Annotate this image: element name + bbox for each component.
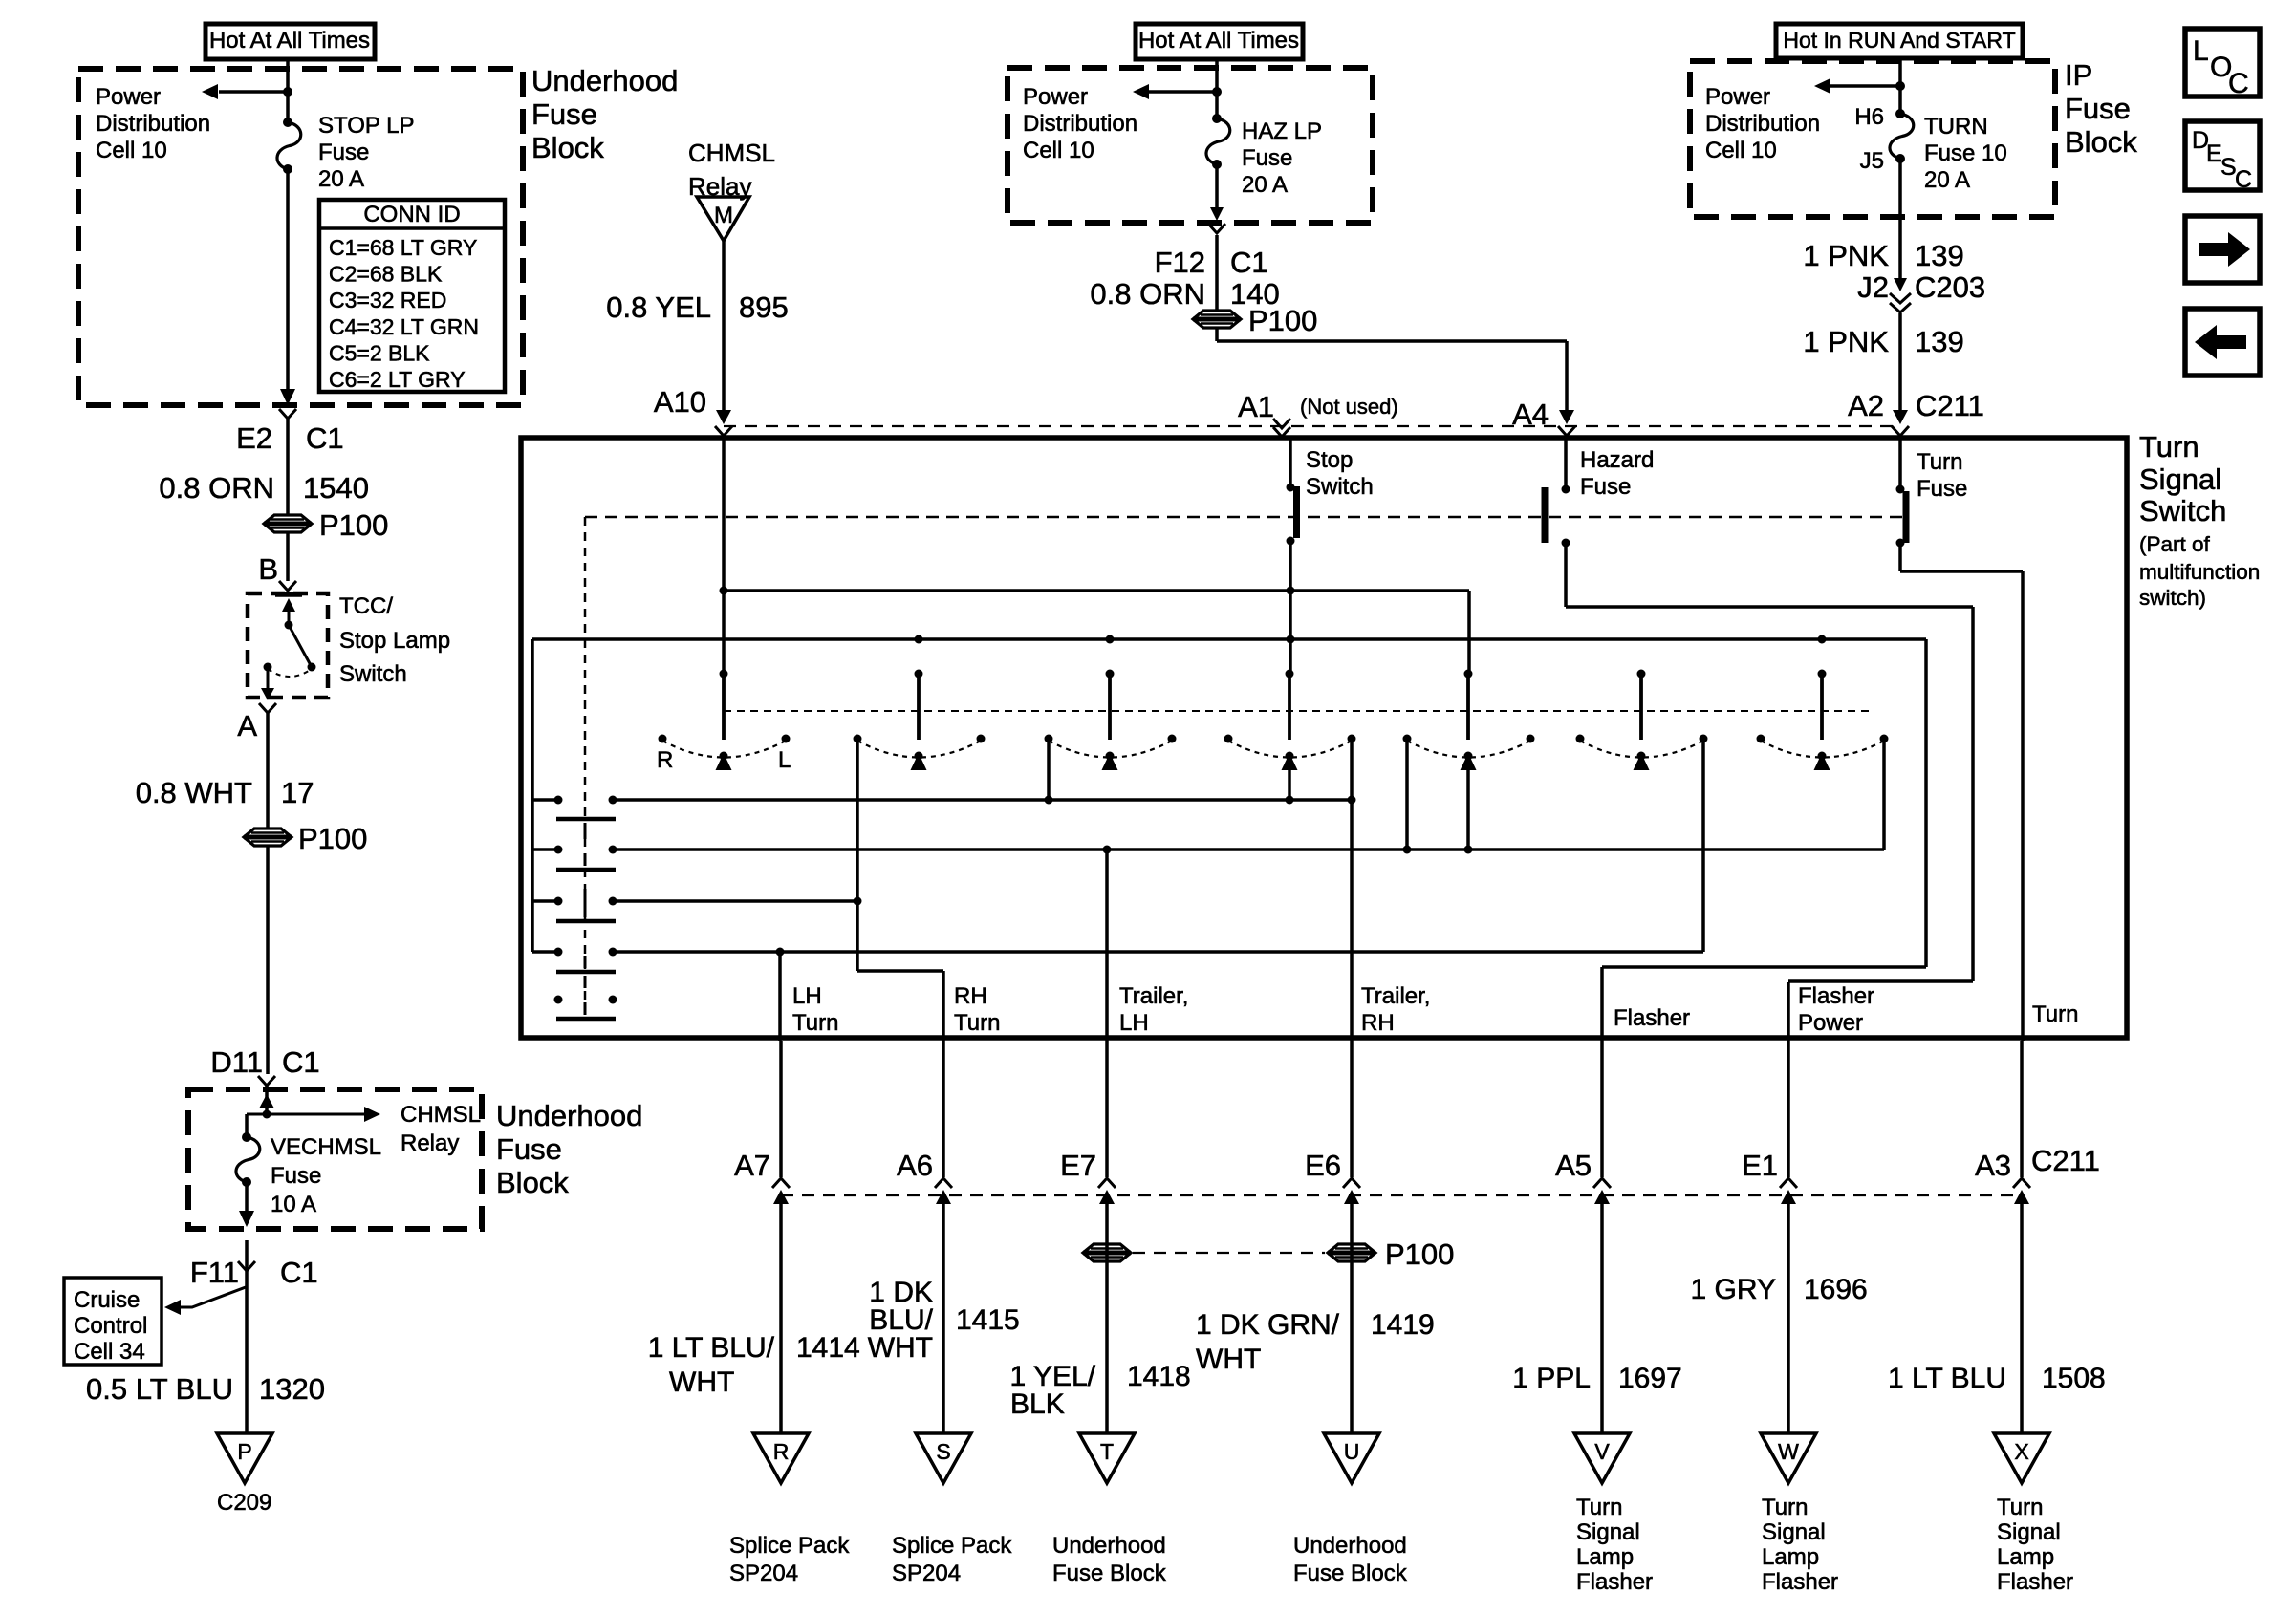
svg-text:Cell 10: Cell 10 <box>1705 138 1777 163</box>
svg-text:STOP LP: STOP LP <box>318 113 415 139</box>
svg-text:0.5 LT BLU: 0.5 LT BLU <box>86 1372 233 1406</box>
svg-text:Control: Control <box>74 1313 147 1339</box>
svg-text:1418: 1418 <box>1127 1361 1191 1392</box>
svg-text:TCC/: TCC/ <box>339 593 393 619</box>
svg-text:switch): switch) <box>2139 586 2206 610</box>
svg-text:(Part of: (Part of <box>2139 532 2211 556</box>
svg-text:Fuse: Fuse <box>1580 474 1631 500</box>
svg-text:1 PNK: 1 PNK <box>1803 325 1889 358</box>
svg-text:Relay: Relay <box>401 1130 459 1156</box>
svg-text:Underhood: Underhood <box>531 64 678 97</box>
svg-text:1540: 1540 <box>303 471 369 505</box>
svg-text:Underhood: Underhood <box>1052 1533 1166 1559</box>
svg-text:Turn: Turn <box>2139 430 2199 463</box>
svg-text:Fuse: Fuse <box>2065 92 2131 125</box>
svg-text:Fuse: Fuse <box>318 140 369 165</box>
svg-text:20 A: 20 A <box>1924 167 1970 193</box>
svg-text:LH: LH <box>792 983 822 1009</box>
svg-text:C1: C1 <box>280 1256 318 1289</box>
svg-text:Signal: Signal <box>1997 1519 2061 1545</box>
svg-text:1 DK GRN/: 1 DK GRN/ <box>1196 1309 1340 1341</box>
svg-text:C211: C211 <box>1916 389 1984 422</box>
svg-text:C3=32 RED: C3=32 RED <box>329 288 446 312</box>
svg-text:Cell 10: Cell 10 <box>96 138 167 163</box>
svg-text:P100: P100 <box>1385 1237 1454 1271</box>
svg-text:Cell 34: Cell 34 <box>74 1339 145 1365</box>
svg-text:1419: 1419 <box>1371 1309 1435 1341</box>
svg-text:Trailer,: Trailer, <box>1119 983 1188 1009</box>
svg-text:Hot In RUN And START: Hot In RUN And START <box>1783 28 2015 53</box>
svg-text:Signal: Signal <box>1762 1519 1826 1545</box>
svg-text:V: V <box>1594 1439 1610 1464</box>
svg-text:Splice Pack: Splice Pack <box>892 1533 1012 1559</box>
svg-text:Distribution: Distribution <box>1705 111 1820 137</box>
svg-text:Turn: Turn <box>1997 1495 2043 1520</box>
svg-text:F12: F12 <box>1155 246 1205 279</box>
svg-text:17: 17 <box>281 776 314 809</box>
svg-text:WHT: WHT <box>669 1367 734 1398</box>
svg-text:WHT: WHT <box>1196 1344 1261 1375</box>
svg-text:A2: A2 <box>1848 389 1884 422</box>
svg-text:Power: Power <box>1798 1010 1863 1036</box>
svg-text:0.8 ORN: 0.8 ORN <box>1090 277 1205 311</box>
svg-text:L: L <box>2193 35 2209 67</box>
svg-text:1 GRY: 1 GRY <box>1691 1274 1777 1305</box>
svg-text:139: 139 <box>1915 325 1964 358</box>
svg-text:multifunction: multifunction <box>2139 560 2260 584</box>
svg-text:Fuse Block: Fuse Block <box>1293 1560 1408 1586</box>
svg-text:J2: J2 <box>1857 270 1889 304</box>
svg-text:C: C <box>2235 166 2252 193</box>
svg-text:C203: C203 <box>1915 270 1985 304</box>
svg-text:1415: 1415 <box>956 1304 1020 1336</box>
svg-text:BLK: BLK <box>1010 1388 1065 1420</box>
svg-text:10 A: 10 A <box>271 1192 316 1217</box>
svg-text:Signal: Signal <box>1576 1519 1640 1545</box>
svg-text:HAZ LP: HAZ LP <box>1242 118 1322 144</box>
svg-text:A5: A5 <box>1555 1149 1592 1182</box>
svg-text:Power: Power <box>1023 84 1088 110</box>
svg-text:F11: F11 <box>190 1256 239 1289</box>
svg-text:1696: 1696 <box>1804 1274 1868 1305</box>
svg-text:(Not used): (Not used) <box>1300 395 1398 419</box>
svg-text:B: B <box>258 552 278 586</box>
svg-text:RH: RH <box>954 983 987 1009</box>
svg-text:Turn: Turn <box>1576 1495 1622 1520</box>
svg-text:P100: P100 <box>1248 304 1317 337</box>
svg-text:X: X <box>2014 1439 2028 1464</box>
svg-text:Flasher: Flasher <box>1576 1569 1653 1595</box>
svg-text:Fuse: Fuse <box>1917 476 1967 502</box>
svg-text:A7: A7 <box>734 1149 770 1182</box>
svg-text:P: P <box>237 1439 251 1464</box>
svg-text:A10: A10 <box>654 385 706 419</box>
svg-text:R: R <box>773 1439 790 1464</box>
svg-text:Hot At All Times: Hot At All Times <box>209 28 370 54</box>
svg-text:C1: C1 <box>1230 246 1268 279</box>
svg-text:Fuse: Fuse <box>496 1132 562 1166</box>
svg-text:Fuse 10: Fuse 10 <box>1924 140 2007 166</box>
svg-text:TURN: TURN <box>1924 114 1988 140</box>
svg-text:Switch: Switch <box>339 661 407 687</box>
svg-text:P100: P100 <box>298 822 367 855</box>
svg-text:C6=2 LT GRY: C6=2 LT GRY <box>329 367 466 392</box>
svg-text:E2: E2 <box>236 421 272 455</box>
svg-text:RH: RH <box>1361 1010 1395 1036</box>
svg-text:Distribution: Distribution <box>96 111 210 137</box>
svg-text:SP204: SP204 <box>892 1560 961 1586</box>
svg-text:Fuse Block: Fuse Block <box>1052 1560 1167 1586</box>
svg-text:Lamp: Lamp <box>1997 1544 2054 1570</box>
svg-text:Flasher: Flasher <box>1997 1569 2073 1595</box>
svg-text:Fuse: Fuse <box>271 1163 321 1189</box>
svg-text:Stop: Stop <box>1306 447 1353 473</box>
svg-text:Underhood: Underhood <box>1293 1533 1407 1559</box>
svg-text:139: 139 <box>1915 239 1964 272</box>
svg-text:Cell 10: Cell 10 <box>1023 138 1094 163</box>
svg-text:Turn: Turn <box>1917 449 1962 475</box>
svg-text:H6: H6 <box>1854 104 1884 130</box>
svg-text:A1: A1 <box>1238 390 1274 423</box>
svg-text:R: R <box>657 747 673 773</box>
svg-text:E1: E1 <box>1742 1149 1778 1182</box>
svg-text:Turn: Turn <box>2032 1001 2078 1027</box>
svg-text:U: U <box>1344 1439 1360 1464</box>
svg-text:C: C <box>2228 68 2249 99</box>
svg-text:C211: C211 <box>2031 1144 2100 1177</box>
svg-text:Stop Lamp: Stop Lamp <box>339 628 450 654</box>
svg-text:J5: J5 <box>1860 148 1884 174</box>
svg-text:Lamp: Lamp <box>1762 1544 1819 1570</box>
svg-text:CHMSL: CHMSL <box>401 1102 481 1128</box>
svg-text:L: L <box>778 747 791 773</box>
svg-text:Block: Block <box>531 131 604 164</box>
svg-text:VECHMSL: VECHMSL <box>271 1134 381 1160</box>
svg-text:Cruise: Cruise <box>74 1287 140 1313</box>
svg-text:1 LT BLU/: 1 LT BLU/ <box>648 1332 775 1364</box>
svg-text:1 LT BLU: 1 LT BLU <box>1888 1363 2006 1394</box>
svg-text:1508: 1508 <box>2042 1363 2106 1394</box>
svg-text:1697: 1697 <box>1618 1363 1682 1394</box>
svg-text:LH: LH <box>1119 1010 1149 1036</box>
svg-text:Flasher: Flasher <box>1798 983 1874 1009</box>
svg-text:M: M <box>714 203 733 228</box>
svg-text:Hot At All Times: Hot At All Times <box>1138 28 1299 54</box>
svg-text:0.8 ORN: 0.8 ORN <box>159 471 274 505</box>
svg-text:0.8 WHT: 0.8 WHT <box>136 776 252 809</box>
svg-text:895: 895 <box>739 291 789 324</box>
svg-text:Turn: Turn <box>954 1010 1000 1036</box>
svg-text:20 A: 20 A <box>318 166 364 192</box>
svg-text:Splice Pack: Splice Pack <box>729 1533 850 1559</box>
svg-text:IP: IP <box>2065 58 2092 92</box>
svg-text:C1: C1 <box>306 421 344 455</box>
svg-text:Switch: Switch <box>2139 494 2226 527</box>
svg-text:A: A <box>237 709 257 742</box>
svg-text:Power: Power <box>1705 84 1770 110</box>
svg-text:E7: E7 <box>1060 1149 1096 1182</box>
svg-text:Fuse: Fuse <box>1242 145 1292 171</box>
svg-text:Flasher: Flasher <box>1762 1569 1838 1595</box>
svg-text:Block: Block <box>2065 125 2137 159</box>
svg-text:WHT: WHT <box>868 1332 933 1364</box>
svg-text:Block: Block <box>496 1166 569 1199</box>
svg-text:Flasher: Flasher <box>1614 1005 1690 1031</box>
svg-text:Hazard: Hazard <box>1580 447 1654 473</box>
svg-text:SP204: SP204 <box>729 1560 798 1586</box>
svg-text:A3: A3 <box>1975 1149 2011 1182</box>
svg-text:T: T <box>1100 1439 1114 1464</box>
svg-text:C1=68 LT GRY: C1=68 LT GRY <box>329 235 477 260</box>
svg-text:CONN ID: CONN ID <box>363 202 460 227</box>
svg-text:20 A: 20 A <box>1242 172 1288 198</box>
svg-text:Lamp: Lamp <box>1576 1544 1634 1570</box>
svg-text:P100: P100 <box>319 508 388 542</box>
svg-text:Trailer,: Trailer, <box>1361 983 1430 1009</box>
svg-text:E6: E6 <box>1305 1149 1341 1182</box>
svg-text:Fuse: Fuse <box>531 97 597 131</box>
svg-text:1 PNK: 1 PNK <box>1803 239 1889 272</box>
svg-text:C5=2 BLK: C5=2 BLK <box>329 340 430 365</box>
svg-text:C1: C1 <box>282 1045 320 1079</box>
svg-text:C4=32 LT GRN: C4=32 LT GRN <box>329 314 479 339</box>
svg-text:CHMSL: CHMSL <box>688 139 775 167</box>
svg-text:C209: C209 <box>217 1490 271 1516</box>
svg-text:1414: 1414 <box>796 1332 860 1364</box>
svg-text:Power: Power <box>96 84 161 110</box>
svg-text:Turn: Turn <box>1762 1495 1808 1520</box>
svg-text:Distribution: Distribution <box>1023 111 1137 137</box>
svg-text:Turn: Turn <box>792 1010 838 1036</box>
svg-text:Switch: Switch <box>1306 474 1374 500</box>
svg-text:C2=68 BLK: C2=68 BLK <box>329 262 443 287</box>
svg-text:0.8 YEL: 0.8 YEL <box>606 291 711 324</box>
svg-text:W: W <box>1778 1439 1799 1464</box>
svg-text:Underhood: Underhood <box>496 1099 642 1132</box>
svg-text:S: S <box>936 1439 950 1464</box>
svg-text:1320: 1320 <box>259 1372 325 1406</box>
svg-text:Signal: Signal <box>2139 463 2221 496</box>
svg-text:D11: D11 <box>210 1045 263 1079</box>
svg-text:1 PPL: 1 PPL <box>1512 1363 1591 1394</box>
svg-text:A6: A6 <box>897 1149 933 1182</box>
